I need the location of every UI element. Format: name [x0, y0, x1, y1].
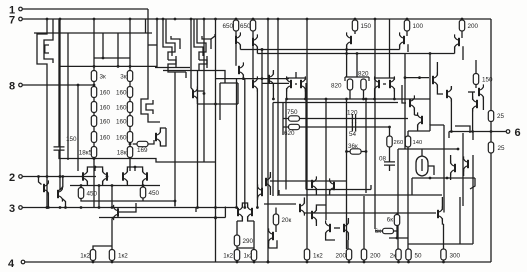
- resistor 1k2 a: [90, 250, 95, 261]
- junction rail4: [397, 261, 400, 264]
- wire: [81, 199, 143, 202]
- wire horizontal y118.5: [283, 118, 408, 120]
- wire: [421, 149, 423, 156]
- wire y217.5: [99, 217, 225, 219]
- wire Q13b emitter: [393, 88, 395, 99]
- wire Q18 emitter: [437, 85, 443, 94]
- wire pin4 bottom rail: [25, 261, 491, 263]
- resistor 160: [127, 102, 132, 113]
- wire block3 to x215: [211, 34, 215, 39]
- transistor Q34 block: [416, 156, 428, 176]
- resistor 160: [91, 87, 96, 98]
- resistor 6k b: [383, 228, 394, 233]
- wire vertical x118: [117, 33, 119, 66]
- wire Q8 emitter: [239, 45, 241, 50]
- junction: [261, 48, 264, 51]
- wire: [462, 46, 464, 60]
- svg-text:18к5: 18к5: [79, 150, 93, 157]
- transistor Q25: [143, 169, 147, 184]
- resistor 160: [91, 116, 96, 127]
- wire vertical x175: [174, 72, 176, 206]
- wire y66.4 bias bus: [60, 65, 157, 67]
- resistor 25 top: [488, 111, 493, 122]
- junction on top rail: [267, 18, 270, 21]
- wire y204: [264, 203, 296, 205]
- junction rail4: [407, 261, 410, 264]
- wire: [326, 233, 335, 240]
- junction on top rail: [129, 18, 132, 21]
- resistor 6k a: [394, 215, 399, 226]
- junction: [242, 77, 245, 80]
- transistor Q30: [312, 207, 316, 222]
- wire collector tie: [242, 203, 247, 208]
- junction: [261, 77, 264, 80]
- wire horizontal y33: [34, 32, 152, 34]
- svg-text:140: 140: [413, 140, 423, 146]
- wire vertical x366: [365, 99, 367, 193]
- wire x463: [462, 133, 464, 206]
- wire: [448, 132, 450, 139]
- wire: [268, 241, 270, 248]
- wire emitter bus y185.5: [70, 185, 160, 187]
- transistor Q23: [103, 169, 107, 184]
- junction: [345, 150, 348, 153]
- resistor 150 out: [473, 74, 478, 85]
- transistor Q4 block: [141, 95, 153, 118]
- wire Q17 emitter: [454, 47, 456, 54]
- svg-text:200: 200: [468, 23, 479, 30]
- svg-text:120: 120: [347, 110, 358, 117]
- resistor 169: [137, 141, 148, 146]
- wire y83.4: [262, 82, 289, 84]
- wire to Q28 base: [118, 203, 136, 212]
- resistor 100: [404, 20, 409, 31]
- wire collector tie 2: [127, 167, 142, 172]
- junction: [345, 48, 348, 51]
- junction: [46, 18, 49, 21]
- capacitor 0.8: [384, 162, 395, 165]
- wire Q37 collector: [59, 177, 61, 191]
- svg-text:50: 50: [415, 253, 423, 260]
- svg-text:200: 200: [335, 253, 346, 260]
- junction: [388, 126, 391, 129]
- wire: [257, 197, 259, 198]
- wire: [414, 114, 417, 116]
- resistor 50: [406, 249, 411, 260]
- wire: [347, 233, 349, 240]
- wire: [398, 260, 400, 262]
- junction on top rail: [374, 18, 377, 21]
- transistor Q3 block: [194, 19, 211, 68]
- wire corner: [430, 125, 444, 131]
- transistor Q12 double: [345, 77, 369, 81]
- wire: [102, 181, 104, 186]
- transistor Q31: [326, 220, 330, 235]
- wire down to rail3: [98, 186, 100, 208]
- junction: [106, 175, 109, 178]
- junction: [196, 206, 199, 209]
- transistor Q27: [248, 204, 252, 219]
- svg-text:820: 820: [331, 83, 342, 90]
- svg-text:2: 2: [9, 172, 15, 184]
- wire: [236, 246, 238, 250]
- svg-text:36к: 36к: [348, 143, 358, 150]
- transistor Q45: [300, 200, 304, 215]
- transistor Q37: [58, 186, 62, 201]
- wire horizontal y149: [398, 148, 458, 150]
- svg-text:160: 160: [100, 105, 111, 112]
- wire: [92, 261, 94, 263]
- junction: [94, 166, 97, 169]
- svg-text:750: 750: [287, 109, 298, 116]
- junction rail4: [306, 261, 309, 264]
- wire block2 lower hook: [168, 56, 186, 72]
- wire Q43 emitter down: [256, 89, 258, 208]
- pin 2 terminal: [9, 172, 22, 184]
- wire vertical x145.5: [145, 19, 147, 33]
- junction y99: [362, 98, 365, 101]
- transistor Q6: [193, 86, 197, 101]
- junction rail4: [363, 261, 366, 264]
- svg-text:450: 450: [87, 191, 98, 198]
- pin 1 terminal: [9, 5, 22, 17]
- junction: [261, 48, 264, 51]
- wire: [370, 185, 372, 190]
- wire Q15 emitter down: [472, 108, 474, 131]
- wire: [413, 108, 415, 115]
- transistor Q38: [312, 176, 316, 191]
- wire x59 cap branch: [58, 19, 60, 147]
- junction: [429, 52, 432, 55]
- pin 7 terminal: [9, 15, 22, 27]
- junction on top rail: [306, 18, 309, 21]
- wire rail3 jog: [195, 208, 197, 213]
- wire: [396, 213, 398, 215]
- resistor 18k: [127, 147, 132, 158]
- wire y131: [408, 130, 430, 132]
- junction on top rail: [277, 18, 280, 21]
- junction: [446, 177, 449, 180]
- junction: [98, 184, 101, 187]
- wire pin7 top rail: [23, 18, 491, 20]
- svg-text:100: 100: [413, 23, 424, 30]
- pin 6 terminal: [506, 127, 520, 139]
- junction rail3: [235, 206, 238, 209]
- svg-text:6: 6: [515, 127, 521, 139]
- wire vertical x262: [261, 50, 263, 189]
- wire: [315, 188, 317, 195]
- svg-text:8: 8: [9, 81, 15, 93]
- wire: [235, 19, 237, 20]
- wire vertical x326: [325, 99, 327, 220]
- resistor 450 a: [78, 188, 83, 199]
- junction y218b: [214, 216, 217, 219]
- wire vertical x405: [404, 54, 406, 150]
- wire: [329, 190, 331, 195]
- wire rail to Q1: [46, 19, 48, 30]
- junction y99: [325, 98, 328, 101]
- wire Q45 emitter long y213: [304, 211, 436, 214]
- wire vertical x204: [203, 19, 205, 162]
- junction: [356, 52, 359, 55]
- wire: [252, 31, 254, 38]
- wire: [482, 103, 484, 110]
- wire bus step: [152, 159, 216, 163]
- wire: [396, 226, 398, 239]
- junction y99: [272, 98, 275, 101]
- wire long bias y53.5: [257, 53, 454, 55]
- wire: [134, 167, 136, 171]
- transistor Q33: [438, 206, 442, 221]
- junction pin6: [471, 130, 474, 133]
- junction: [457, 148, 460, 151]
- wire x444 down: [443, 125, 445, 213]
- wire y70.5: [163, 71, 225, 84]
- junction rail4: [442, 261, 445, 264]
- wire bridge x148-x157: [148, 44, 157, 46]
- wire x283: [282, 103, 284, 136]
- resistor 25 bottom: [488, 142, 493, 153]
- svg-text:200: 200: [370, 253, 381, 260]
- wire: [363, 260, 365, 262]
- junction: [253, 261, 256, 264]
- resistor 620: [289, 124, 300, 129]
- wire horizontal y127: [283, 126, 390, 128]
- wire right border: [490, 19, 492, 262]
- transistor Q13b: [390, 76, 394, 91]
- wire: [407, 131, 409, 136]
- transistor Q20: [410, 95, 414, 110]
- resistor 260: [387, 136, 392, 147]
- wire: [389, 147, 391, 162]
- resistor 820 a: [347, 79, 352, 90]
- wire 18k to R169: [133, 143, 137, 145]
- wire corner up to rail3: [224, 207, 226, 218]
- transistor Q19: [447, 86, 451, 101]
- svg-text:300: 300: [450, 253, 461, 260]
- svg-text:650: 650: [222, 23, 233, 30]
- svg-text:160: 160: [116, 90, 127, 97]
- wire: [126, 181, 128, 186]
- wire: [253, 261, 255, 263]
- wire: [315, 220, 317, 226]
- wire chain column 2: [129, 19, 131, 171]
- wire: [236, 261, 238, 263]
- wire Q15 collector: [472, 92, 474, 100]
- wire x460: [459, 197, 461, 244]
- wire: [361, 151, 366, 153]
- svg-text:3к: 3к: [100, 74, 107, 81]
- transistor Q13a: [375, 76, 379, 91]
- junction: [111, 184, 114, 187]
- transistor Q11b: [301, 76, 305, 91]
- transistor Q40: [266, 174, 270, 189]
- resistor 160: [91, 132, 96, 143]
- svg-text:1к2: 1к2: [118, 253, 128, 260]
- resistor 140: [405, 136, 410, 147]
- svg-text:160: 160: [100, 135, 111, 142]
- wire horizontal y99: [286, 98, 430, 100]
- wire Q37 base hook: [59, 177, 63, 191]
- svg-text:25: 25: [498, 145, 506, 152]
- junction: [37, 175, 40, 178]
- wire y238: [389, 237, 409, 239]
- junction: [129, 65, 132, 68]
- junction pin6 b: [450, 130, 453, 133]
- resistor 3k (chain1): [91, 71, 96, 82]
- wire: [253, 221, 255, 250]
- junction on top rail: [156, 18, 159, 21]
- transistor Q9: [253, 34, 257, 49]
- junction: [59, 175, 62, 178]
- svg-text:650: 650: [240, 23, 251, 30]
- wire x220 down: [219, 83, 221, 120]
- wire to pin3 rail: [46, 177, 48, 208]
- wire: [408, 260, 410, 262]
- wire y178 box: [412, 177, 475, 179]
- wire: [316, 205, 326, 211]
- wire: [475, 60, 477, 74]
- wire: [269, 172, 271, 178]
- capacitor 150: [54, 147, 65, 150]
- wire: [442, 218, 443, 224]
- wire x357 to cluster: [356, 54, 358, 78]
- svg-text:54: 54: [349, 131, 357, 138]
- wire: [235, 31, 237, 36]
- wire vertical x244.8: [244, 79, 246, 208]
- wire vertical x197: [197, 70, 199, 208]
- wire Q45 collector: [303, 197, 305, 203]
- svg-text:150: 150: [361, 23, 372, 30]
- wire y78.6: [216, 78, 290, 80]
- wire: [269, 240, 277, 248]
- junction: [203, 92, 206, 95]
- wire: [306, 260, 308, 262]
- transistor Q1 block (lateral pnp): [37, 30, 53, 68]
- resistor 3k (chain2): [127, 71, 132, 82]
- wire Q14 base: [468, 91, 475, 93]
- junction on top rail: [354, 18, 357, 21]
- wire horizontal y102.5: [273, 102, 398, 104]
- junction: [236, 261, 239, 264]
- wire Q9 emitter: [256, 47, 258, 54]
- junction on top rail: [203, 18, 206, 21]
- resistor 1k2 f: [304, 249, 309, 260]
- wire Q1 out down: [46, 68, 48, 177]
- resistor 1k2 c: [234, 250, 239, 261]
- resistor 200 a: [346, 249, 351, 260]
- wire Q36 emitter to rail3: [47, 193, 49, 208]
- capacitor 54: [352, 123, 355, 132]
- junction: [77, 84, 80, 87]
- wire Q11a emitter: [286, 88, 288, 99]
- transistor Q21: [418, 112, 422, 127]
- transistor Q26: [238, 204, 242, 219]
- resistor 20k: [273, 214, 278, 225]
- svg-text:450: 450: [149, 190, 160, 197]
- junction on top rail: [461, 18, 464, 21]
- wire vertical x103: [102, 33, 104, 58]
- svg-text:160: 160: [100, 119, 111, 126]
- pin 3 terminal: [9, 203, 22, 215]
- junction: [59, 175, 62, 178]
- wire x364: [363, 196, 365, 250]
- wire 450 bus to x175: [143, 201, 175, 206]
- junction: [142, 184, 145, 187]
- wire: [472, 132, 474, 141]
- junction: [404, 76, 407, 79]
- wire Q4 out: [148, 118, 160, 122]
- wire Q11 collector tie: [287, 78, 306, 80]
- svg-text:290: 290: [243, 238, 254, 245]
- wire chain column 1: [93, 19, 95, 208]
- wire: [389, 166, 391, 172]
- wire: [347, 151, 351, 153]
- wire y67.5: [155, 67, 190, 69]
- wire Q14 emitter: [482, 97, 484, 103]
- transistor Q46: [258, 184, 262, 199]
- resistor 650 b: [250, 20, 255, 31]
- junction: [214, 217, 217, 220]
- svg-text:18к: 18к: [117, 150, 127, 157]
- junction rail3: [256, 206, 259, 209]
- junction y99: [304, 98, 307, 101]
- junction rail3: [243, 206, 246, 209]
- wire vertical x346: [346, 99, 348, 249]
- svg-text:160: 160: [116, 119, 127, 126]
- junction on top rail: [93, 18, 96, 21]
- wire Q10 emitter to cluster: [346, 45, 348, 77]
- transistor Q11a: [287, 76, 291, 91]
- wire: [142, 186, 144, 188]
- wire Q11 base tie: [295, 83, 297, 85]
- wire: [236, 221, 238, 235]
- wire Q44 collector: [272, 70, 274, 74]
- resistor 150: [352, 20, 357, 31]
- svg-text:1к2: 1к2: [223, 253, 233, 260]
- wire: [450, 155, 452, 163]
- junction: [47, 206, 50, 209]
- wire: [443, 224, 445, 250]
- resistor 36k: [350, 149, 361, 154]
- junction: [82, 175, 85, 178]
- wire vertical x157: [156, 19, 158, 68]
- wire vertical x60: [59, 19, 61, 177]
- wire Q20 base: [402, 85, 406, 103]
- wire: [417, 125, 419, 131]
- wire cap to bottom bus: [59, 151, 152, 159]
- resistor 200: [459, 20, 464, 31]
- wire: [411, 178, 413, 195]
- svg-text:150: 150: [66, 136, 77, 143]
- wire down to rail3 b: [111, 186, 113, 208]
- junction: [117, 65, 120, 68]
- wire y104: [197, 103, 238, 105]
- resistor 1k2 b: [109, 250, 114, 261]
- svg-text:620: 620: [284, 130, 295, 137]
- svg-text:6к: 6к: [387, 217, 394, 224]
- wire Q44 emitter: [272, 84, 274, 99]
- wire: [334, 227, 340, 229]
- junction rail3: [98, 206, 101, 209]
- wire: [406, 19, 408, 20]
- wire Q6 emitter: [196, 98, 198, 104]
- transistor Q39: [330, 178, 334, 193]
- wire Q6 collector: [197, 90, 204, 91]
- resistor 300: [441, 249, 446, 260]
- wire pin6: [449, 131, 506, 133]
- wire: [463, 169, 465, 176]
